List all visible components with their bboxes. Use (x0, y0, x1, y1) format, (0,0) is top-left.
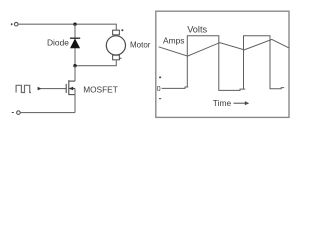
node A (junction dot top of diode) (73, 23, 76, 26)
diode D1 (flyback, cathode bar) (70, 37, 80, 39)
node - (negative supply terminal mark) (12, 112, 14, 114)
node B (junction dot bottom of diode) (73, 64, 76, 67)
terminal circle (positive input) (14, 22, 18, 26)
waveform Volts (square wave trace) (162, 36, 285, 91)
motor M1 (top terminal rect) (113, 30, 120, 35)
wire (junction down to MOSFET drain) (74, 66, 76, 81)
wire (diode branch vertical) (74, 24, 76, 65)
motor M1 (bottom terminal rect) (113, 55, 120, 60)
transistor Q1 MOSFET (source stub) (69, 94, 75, 96)
transistor Q1 MOSFET (channel line) (68, 80, 70, 95)
diode D1 (triangle, anode) (71, 39, 80, 48)
scope panel frame (156, 11, 289, 117)
wire (source down to bottom rail) (74, 89, 76, 113)
svg-text:Amps: Amps (163, 36, 184, 46)
label - (motor negative) (119, 57, 121, 59)
transistor Q1 MOSFET (body arrow pointing into channel) (69, 88, 75, 90)
arrow (time axis) (234, 102, 246, 104)
label + (axis) (159, 76, 161, 78)
svg-text:Motor: Motor (130, 41, 151, 50)
terminal circle (negative input) (17, 111, 21, 115)
label + (motor positive) (121, 29, 123, 31)
node + (positive supply terminal mark) (11, 23, 13, 25)
transistor Q1 MOSFET (gate plate) (65, 84, 67, 93)
svg-text:MOSFET: MOSFET (83, 85, 118, 95)
svg-text:Volts: Volts (187, 25, 207, 35)
square wave source symbol (16, 85, 31, 92)
label - (axis) (159, 98, 161, 100)
svg-text:Time: Time (213, 98, 232, 108)
transistor Q1 MOSFET (drain stub) (69, 80, 75, 82)
svg-text:Diode: Diode (47, 38, 69, 48)
wire (motor bottom to diode anode junction) (75, 60, 116, 66)
wire (bottom rail) (20, 112, 75, 114)
arrow (gate drive input) (38, 87, 42, 90)
motor M1 (body circle) (106, 36, 125, 55)
wire (gate input) (41, 88, 67, 90)
wire (top rail from + terminal to motor) (18, 24, 116, 30)
waveform Amps (ripple current trace) (159, 39, 289, 56)
svg-text:0: 0 (157, 84, 161, 93)
